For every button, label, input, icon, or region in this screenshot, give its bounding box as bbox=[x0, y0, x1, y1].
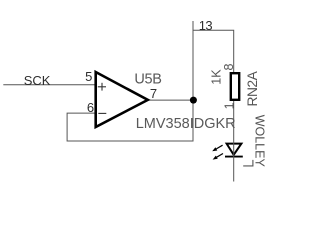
svg-text:LMV358IDGKR: LMV358IDGKR bbox=[136, 116, 236, 132]
svg-text:1: 1 bbox=[222, 102, 236, 109]
svg-text:SCK: SCK bbox=[24, 73, 51, 88]
svg-text:6: 6 bbox=[87, 100, 94, 115]
svg-text:5: 5 bbox=[85, 69, 92, 84]
svg-text:U5B: U5B bbox=[134, 72, 161, 88]
svg-text:7: 7 bbox=[150, 86, 157, 101]
svg-text:WOLLEY: WOLLEY bbox=[253, 115, 267, 168]
svg-text:RN2A: RN2A bbox=[245, 70, 260, 106]
svg-text:13: 13 bbox=[199, 18, 213, 33]
svg-text:8: 8 bbox=[222, 64, 236, 71]
